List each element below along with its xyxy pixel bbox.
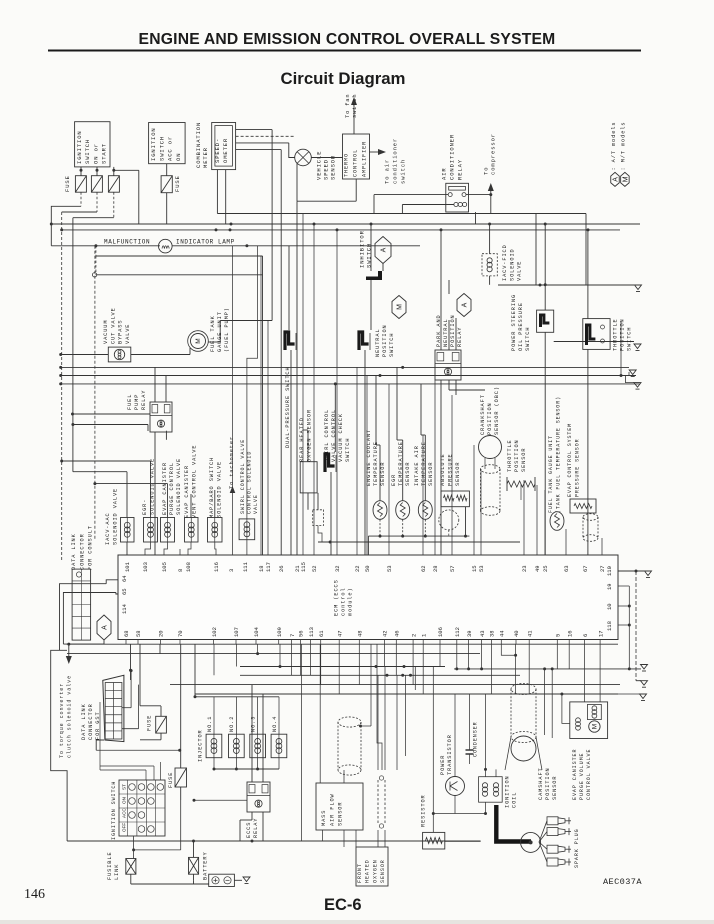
svg-text:clutch solenoid valve: clutch solenoid valve	[66, 675, 72, 758]
svg-text:SOLENOID VALVE: SOLENOID VALVE	[216, 461, 222, 518]
svg-text:70: 70	[177, 630, 184, 637]
svg-text:22: 22	[354, 565, 361, 572]
svg-text:116: 116	[213, 562, 220, 572]
svg-text:110: 110	[606, 566, 613, 576]
svg-text:109: 109	[276, 627, 283, 637]
svg-text:SENSOR (OBC): SENSOR (OBC)	[494, 386, 500, 435]
svg-text:16: 16	[566, 630, 573, 637]
svg-text:control: control	[341, 587, 347, 616]
svg-text:32: 32	[334, 565, 341, 572]
svg-text:THERMO: THERMO	[344, 153, 350, 177]
svg-text:OXYGEN: OXYGEN	[372, 859, 378, 883]
svg-text:SWITCH: SWITCH	[366, 243, 373, 268]
svg-text:FUSIBLE: FUSIBLE	[107, 851, 113, 880]
svg-text:26: 26	[278, 565, 285, 572]
svg-text:COMBINATION: COMBINATION	[195, 122, 202, 168]
svg-text:FRONT: FRONT	[357, 863, 363, 883]
svg-text:SWITCH: SWITCH	[84, 139, 91, 164]
svg-text:PUMP: PUMP	[134, 394, 140, 410]
svg-text:EC-6: EC-6	[324, 896, 362, 914]
svg-text:EVAP CONTROL SYSTEM: EVAP CONTROL SYSTEM	[567, 423, 573, 497]
svg-text:FUEL TANK: FUEL TANK	[210, 315, 216, 352]
svg-text:105: 105	[161, 562, 168, 572]
svg-text:POSITION: POSITION	[487, 402, 493, 435]
svg-text:A: A	[381, 247, 388, 252]
svg-text:NEUTRAL: NEUTRAL	[443, 318, 449, 347]
svg-text:PRESSURE SENSOR: PRESSURE SENSOR	[575, 438, 581, 497]
svg-text:IGNITION: IGNITION	[76, 130, 83, 164]
svg-text:OMETER: OMETER	[222, 138, 229, 163]
svg-text:CUT VALVE: CUT VALVE	[110, 307, 116, 344]
svg-text:102: 102	[211, 627, 218, 637]
svg-text:15: 15	[471, 565, 478, 572]
svg-text:SENSOR: SENSOR	[380, 462, 386, 486]
svg-text:SWITCH: SWITCH	[525, 327, 531, 351]
svg-text:112: 112	[454, 627, 461, 637]
svg-text:47: 47	[336, 630, 343, 637]
svg-text:5: 5	[555, 634, 562, 637]
svg-text:PURGE VOLUME: PURGE VOLUME	[579, 753, 585, 800]
svg-text:(FUEL PUMP): (FUEL PUMP)	[224, 307, 230, 352]
svg-text:ON: ON	[122, 797, 127, 804]
svg-text:: M/T models: : M/T models	[621, 122, 627, 171]
svg-text:8: 8	[177, 569, 184, 572]
svg-text:SOLENOID: SOLENOID	[509, 248, 515, 281]
svg-text:20: 20	[158, 630, 165, 637]
svg-text:CONNECTOR: CONNECTOR	[79, 533, 85, 570]
svg-text:VENT CONTROL VALVE: VENT CONTROL VALVE	[191, 445, 197, 518]
svg-text:OXYGEN SENSOR: OXYGEN SENSOR	[306, 409, 312, 462]
svg-text:43: 43	[479, 630, 486, 637]
svg-text:INDICATOR LAMP: INDICATOR LAMP	[176, 239, 235, 246]
svg-text:RELAY: RELAY	[457, 327, 463, 347]
svg-text:TRANSISTOR: TRANSISTOR	[447, 734, 453, 775]
svg-text:CONNECTOR: CONNECTOR	[88, 703, 94, 740]
svg-text:114: 114	[121, 603, 128, 614]
svg-text:23: 23	[521, 565, 528, 572]
svg-text:3: 3	[228, 569, 235, 572]
svg-text:RELAY: RELAY	[456, 159, 463, 180]
svg-text:41: 41	[526, 630, 533, 637]
svg-text:M: M	[623, 176, 630, 182]
svg-text:ABSOLUTE: ABSOLUTE	[440, 453, 446, 486]
svg-text:THROTTLE: THROTTLE	[613, 318, 619, 351]
svg-text:VEHICLE: VEHICLE	[315, 151, 322, 180]
svg-text:METER: METER	[202, 147, 209, 168]
svg-text:56: 56	[298, 630, 305, 637]
svg-text:7: 7	[289, 634, 296, 637]
svg-text:NO.4: NO.4	[272, 716, 278, 732]
svg-text:VALVE: VALVE	[517, 261, 523, 281]
svg-text:25: 25	[542, 565, 549, 572]
svg-text:FUSE: FUSE	[174, 175, 181, 192]
svg-text:PRESSURE: PRESSURE	[448, 453, 454, 486]
svg-text:SPARK PLUG: SPARK PLUG	[574, 828, 580, 868]
svg-text:SENSOR: SENSOR	[329, 155, 336, 180]
svg-text:108: 108	[185, 562, 192, 572]
svg-text:CONDENSER: CONDENSER	[473, 721, 479, 757]
svg-text:VALVE: VALVE	[253, 494, 259, 514]
svg-text:65: 65	[121, 588, 128, 595]
svg-text:OIL PRESSURE: OIL PRESSURE	[518, 302, 524, 351]
svg-text:39: 39	[466, 630, 473, 637]
svg-text:63: 63	[563, 565, 570, 572]
svg-text:INHIBITOR: INHIBITOR	[358, 230, 365, 268]
svg-text:INTAKE AIR: INTAKE AIR	[414, 445, 420, 486]
svg-text:38: 38	[489, 630, 496, 637]
svg-text:61: 61	[318, 630, 325, 637]
svg-text:19: 19	[606, 583, 613, 590]
svg-text:switch: switch	[399, 159, 406, 184]
svg-text:SWITCH: SWITCH	[158, 136, 165, 161]
svg-text:ON: ON	[175, 153, 182, 161]
svg-text:104: 104	[253, 626, 260, 637]
svg-text:57: 57	[449, 565, 456, 572]
svg-text:To: To	[482, 167, 489, 175]
svg-text:AIR: AIR	[440, 167, 447, 180]
svg-text:40: 40	[513, 630, 520, 637]
svg-text:FUSE: FUSE	[147, 715, 153, 731]
svg-text:RELAY: RELAY	[141, 390, 147, 410]
svg-text:M: M	[195, 338, 202, 343]
svg-text:M: M	[397, 304, 404, 310]
svg-text:A: A	[613, 177, 620, 182]
svg-text:MASS: MASS	[321, 810, 327, 826]
svg-text:RESISTOR: RESISTOR	[421, 794, 427, 827]
svg-text:NO.1: NO.1	[207, 716, 213, 732]
svg-text:DUAL-PRESSURE SWITCH: DUAL-PRESSURE SWITCH	[285, 366, 291, 448]
svg-text:FUSE: FUSE	[168, 772, 174, 788]
svg-text:101: 101	[124, 561, 131, 572]
svg-text:A: A	[102, 625, 109, 630]
svg-text:FOR CONSULT: FOR CONSULT	[88, 525, 94, 570]
svg-text:28: 28	[432, 565, 439, 572]
svg-text:IACV-FICD: IACV-FICD	[502, 244, 508, 281]
svg-text:ECCS: ECCS	[246, 822, 252, 838]
svg-text:ACC or: ACC or	[167, 136, 174, 161]
svg-text:ON or: ON or	[92, 143, 99, 164]
svg-text:111: 111	[242, 561, 249, 572]
svg-text:IGNITION: IGNITION	[505, 775, 511, 808]
svg-text:FUEL: FUEL	[127, 394, 133, 410]
svg-text:CONTROL SOLENOID: CONTROL SOLENOID	[246, 451, 252, 514]
svg-text:103: 103	[142, 562, 149, 572]
svg-text:106: 106	[437, 627, 444, 637]
svg-text:50: 50	[364, 565, 371, 572]
svg-text:44: 44	[499, 630, 506, 637]
svg-text:146: 146	[24, 887, 45, 902]
svg-text:FUSE: FUSE	[64, 175, 71, 192]
svg-text:SPEED: SPEED	[322, 159, 329, 180]
svg-text:POWER: POWER	[440, 755, 446, 775]
svg-text:117: 117	[265, 562, 272, 572]
svg-text:42: 42	[382, 630, 389, 637]
svg-text:17: 17	[597, 630, 604, 637]
svg-text:INJECTOR: INJECTOR	[198, 729, 204, 762]
svg-text:68: 68	[123, 630, 130, 637]
svg-text:: A/T models: : A/T models	[611, 122, 617, 171]
svg-text:compressor: compressor	[489, 133, 496, 175]
svg-text:MALFUNCTION: MALFUNCTION	[104, 239, 150, 246]
svg-text:POWER STEERING: POWER STEERING	[511, 294, 517, 351]
svg-text:AMPLIFIER: AMPLIFIER	[361, 141, 367, 177]
svg-text:ENGINE AND EMISSION CONTROL OV: ENGINE AND EMISSION CONTROL OVERALL SYST…	[139, 31, 556, 48]
svg-text:Circuit Diagram: Circuit Diagram	[281, 69, 406, 88]
svg-text:To fan: To fan	[345, 94, 351, 118]
svg-text:CAMSHAFT: CAMSHAFT	[538, 767, 544, 800]
svg-text:TEMPERATURE: TEMPERATURE	[373, 441, 379, 486]
svg-text:CONDITIONER: CONDITIONER	[448, 134, 455, 180]
svg-text:TEMPERATURE: TEMPERATURE	[421, 441, 427, 486]
svg-text:113: 113	[308, 627, 315, 637]
svg-text:52: 52	[311, 565, 318, 572]
svg-text:18: 18	[258, 565, 265, 572]
svg-text:118: 118	[606, 621, 613, 631]
svg-text:10: 10	[606, 603, 613, 610]
svg-text:POSITION: POSITION	[514, 439, 520, 472]
svg-text:62: 62	[420, 565, 427, 572]
svg-text:67: 67	[582, 565, 589, 572]
svg-text:107: 107	[233, 627, 240, 637]
svg-text:SOLENOID VALVE: SOLENOID VALVE	[112, 488, 118, 545]
svg-text:VALVE CONTROL: VALVE CONTROL	[331, 409, 337, 462]
svg-text:VACUUM CHECK: VACUUM CHECK	[338, 413, 344, 462]
svg-text:BYPASS: BYPASS	[118, 320, 124, 344]
svg-text:IGNITION: IGNITION	[150, 127, 157, 161]
svg-text:IACV-AAC: IACV-AAC	[105, 512, 111, 545]
svg-text:MAP/BARO SWITCH: MAP/BARO SWITCH	[209, 457, 215, 518]
svg-text:EVAP CANISTER: EVAP CANISTER	[572, 749, 578, 800]
svg-text:SENSOR: SENSOR	[428, 462, 434, 486]
svg-text:SWITCH: SWITCH	[345, 438, 351, 462]
svg-text:VALVE: VALVE	[125, 324, 131, 344]
svg-text:ECM (ECCS: ECM (ECCS	[334, 579, 340, 616]
svg-text:CONTROL VALVE: CONTROL VALVE	[586, 749, 592, 800]
svg-text:M: M	[592, 724, 599, 729]
svg-text:EGR-: EGR-	[142, 499, 148, 515]
svg-text:conditioner: conditioner	[391, 138, 398, 184]
svg-text:NEUTRAL: NEUTRAL	[375, 328, 381, 357]
svg-text:SWIRL CONTROL VALVE: SWIRL CONTROL VALVE	[240, 439, 246, 514]
svg-text:POSITION: POSITION	[545, 767, 551, 800]
svg-text:POSITION: POSITION	[450, 314, 456, 347]
svg-text:BATTERY: BATTERY	[203, 851, 209, 880]
svg-text:ST: ST	[122, 784, 127, 790]
svg-text:IGNITION SWITCH: IGNITION SWITCH	[111, 781, 117, 840]
svg-text:SWITCH: SWITCH	[389, 333, 395, 357]
svg-text:SOLENOID VALVE: SOLENOID VALVE	[176, 458, 182, 515]
svg-text:115: 115	[300, 562, 307, 572]
svg-text:COIL: COIL	[512, 792, 518, 808]
svg-text:58: 58	[135, 630, 142, 637]
svg-text:ACC: ACC	[122, 808, 127, 818]
svg-text:AEC037A: AEC037A	[603, 877, 642, 887]
svg-text:SENSOR: SENSOR	[405, 462, 411, 486]
svg-text:START: START	[101, 143, 108, 164]
svg-text:PURGE CONTROL: PURGE CONTROL	[169, 462, 175, 515]
svg-text:(TANK FUEL TEMPERATURE SENSOR): (TANK FUEL TEMPERATURE SENSOR)	[556, 396, 562, 513]
svg-text:SWITCH: SWITCH	[627, 327, 633, 351]
svg-text:AIR FLOW: AIR FLOW	[329, 793, 335, 826]
svg-text:CONTROL: CONTROL	[352, 149, 358, 177]
svg-text:OFF: OFF	[122, 823, 127, 832]
svg-text:53: 53	[386, 565, 393, 572]
svg-text:REAR HEATED: REAR HEATED	[299, 417, 305, 462]
svg-text:53: 53	[478, 565, 485, 572]
svg-text:VACUUM: VACUUM	[103, 320, 109, 344]
svg-text:EGR: EGR	[391, 474, 397, 486]
svg-text:DATA LINK: DATA LINK	[71, 533, 77, 570]
svg-text:LINK: LINK	[114, 864, 120, 880]
svg-text:HEATED: HEATED	[365, 859, 371, 883]
svg-text:46: 46	[394, 630, 401, 637]
svg-text:49: 49	[534, 565, 541, 572]
svg-text:switch: switch	[352, 94, 358, 118]
svg-text:48: 48	[357, 630, 364, 637]
svg-text:SENSOR: SENSOR	[380, 859, 386, 883]
svg-text:module): module)	[348, 587, 354, 616]
svg-text:SPEED-: SPEED-	[214, 138, 221, 163]
svg-text:FUEL TANK GAUGE UNIT: FUEL TANK GAUGE UNIT	[548, 435, 554, 513]
svg-text:SENSOR: SENSOR	[455, 462, 461, 486]
svg-text:NO.2: NO.2	[229, 716, 235, 732]
svg-text:64: 64	[121, 575, 128, 582]
svg-text:SENSOR: SENSOR	[521, 448, 527, 472]
svg-text:DATA LINK: DATA LINK	[81, 703, 87, 740]
svg-text:EVAP CANISTER: EVAP CANISTER	[184, 465, 190, 518]
svg-text:To torque converter: To torque converter	[59, 683, 65, 758]
svg-text:POSITION: POSITION	[382, 324, 388, 357]
svg-text:CRANKSHAFT: CRANKSHAFT	[480, 394, 486, 435]
svg-text:TEMPERATURE: TEMPERATURE	[398, 441, 404, 486]
svg-text:2: 2	[410, 634, 417, 637]
svg-text:RELAY: RELAY	[253, 818, 259, 838]
svg-text:A: A	[462, 302, 469, 307]
svg-text:SENSOR: SENSOR	[552, 776, 558, 800]
svg-text:SENSOR: SENSOR	[338, 802, 344, 826]
svg-text:THROTTLE: THROTTLE	[507, 439, 513, 472]
svg-text:6: 6	[582, 634, 589, 637]
svg-text:To air: To air	[383, 159, 390, 184]
